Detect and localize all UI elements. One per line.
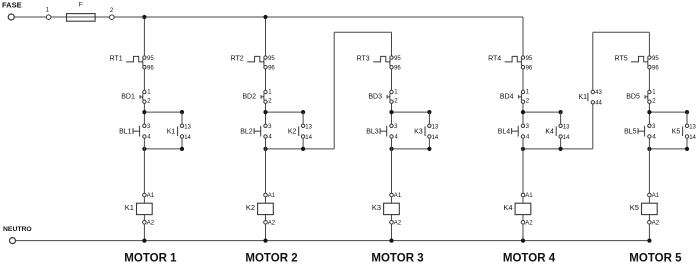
svg-text:A2: A2 bbox=[268, 221, 276, 227]
svg-text:RT3: RT3 bbox=[357, 55, 370, 62]
svg-text:96: 96 bbox=[526, 65, 533, 71]
svg-text:K2: K2 bbox=[246, 203, 255, 212]
svg-text:K4: K4 bbox=[503, 203, 512, 212]
svg-text:A1: A1 bbox=[525, 193, 533, 199]
svg-text:A2: A2 bbox=[394, 221, 402, 227]
svg-text:K3: K3 bbox=[372, 203, 381, 212]
svg-text:F: F bbox=[79, 2, 83, 9]
svg-text:K1: K1 bbox=[125, 203, 134, 212]
svg-text:MOTOR 2: MOTOR 2 bbox=[245, 253, 297, 265]
svg-text:96: 96 bbox=[652, 65, 659, 71]
svg-text:A2: A2 bbox=[652, 221, 660, 227]
svg-text:K5: K5 bbox=[630, 203, 639, 212]
svg-text:43: 43 bbox=[595, 90, 602, 96]
svg-text:BL5: BL5 bbox=[624, 129, 637, 136]
svg-text:MOTOR 5: MOTOR 5 bbox=[629, 253, 682, 265]
svg-text:95: 95 bbox=[147, 56, 154, 62]
svg-text:BL3: BL3 bbox=[366, 129, 379, 136]
svg-text:13: 13 bbox=[563, 124, 570, 130]
svg-text:RT2: RT2 bbox=[231, 55, 244, 62]
svg-text:14: 14 bbox=[184, 135, 191, 141]
svg-text:95: 95 bbox=[526, 56, 533, 62]
svg-text:95: 95 bbox=[268, 56, 275, 62]
svg-text:K2: K2 bbox=[288, 129, 297, 136]
svg-text:96: 96 bbox=[394, 65, 401, 71]
svg-text:BD2: BD2 bbox=[242, 94, 256, 101]
svg-text:MOTOR 1: MOTOR 1 bbox=[124, 253, 177, 265]
svg-text:RT5: RT5 bbox=[614, 55, 627, 62]
svg-text:K1: K1 bbox=[167, 129, 176, 136]
svg-text:96: 96 bbox=[268, 65, 275, 71]
svg-text:13: 13 bbox=[689, 124, 696, 130]
svg-text:13: 13 bbox=[432, 124, 439, 130]
svg-text:FASE: FASE bbox=[2, 0, 22, 9]
svg-text:BD3: BD3 bbox=[368, 94, 382, 101]
svg-text:95: 95 bbox=[652, 56, 659, 62]
svg-text:BL4: BL4 bbox=[498, 129, 511, 136]
svg-text:A1: A1 bbox=[652, 193, 660, 199]
svg-text:RT4: RT4 bbox=[488, 55, 501, 62]
svg-text:MOTOR 3: MOTOR 3 bbox=[371, 253, 423, 265]
svg-text:A1: A1 bbox=[268, 193, 276, 199]
svg-text:A1: A1 bbox=[147, 193, 155, 199]
svg-text:BD1: BD1 bbox=[121, 94, 135, 101]
svg-text:K1: K1 bbox=[578, 94, 587, 101]
svg-text:13: 13 bbox=[184, 124, 191, 130]
svg-text:NEUTRO: NEUTRO bbox=[3, 226, 32, 233]
svg-text:MOTOR 4: MOTOR 4 bbox=[503, 253, 556, 265]
svg-text:BD4: BD4 bbox=[500, 94, 514, 101]
svg-text:14: 14 bbox=[563, 135, 570, 141]
svg-text:K4: K4 bbox=[545, 129, 554, 136]
svg-text:A1: A1 bbox=[394, 193, 402, 199]
svg-text:14: 14 bbox=[432, 135, 439, 141]
svg-text:44: 44 bbox=[595, 100, 602, 106]
svg-text:A2: A2 bbox=[525, 221, 533, 227]
svg-text:A2: A2 bbox=[147, 221, 155, 227]
svg-text:RT1: RT1 bbox=[109, 55, 122, 62]
svg-text:BL1: BL1 bbox=[119, 129, 132, 136]
svg-text:14: 14 bbox=[689, 135, 696, 141]
svg-text:13: 13 bbox=[305, 124, 312, 130]
svg-text:BL2: BL2 bbox=[240, 129, 253, 136]
svg-text:K3: K3 bbox=[414, 129, 423, 136]
svg-text:K5: K5 bbox=[672, 129, 681, 136]
svg-text:96: 96 bbox=[147, 65, 154, 71]
svg-text:95: 95 bbox=[394, 56, 401, 62]
svg-text:14: 14 bbox=[305, 135, 312, 141]
svg-text:BD5: BD5 bbox=[626, 94, 640, 101]
